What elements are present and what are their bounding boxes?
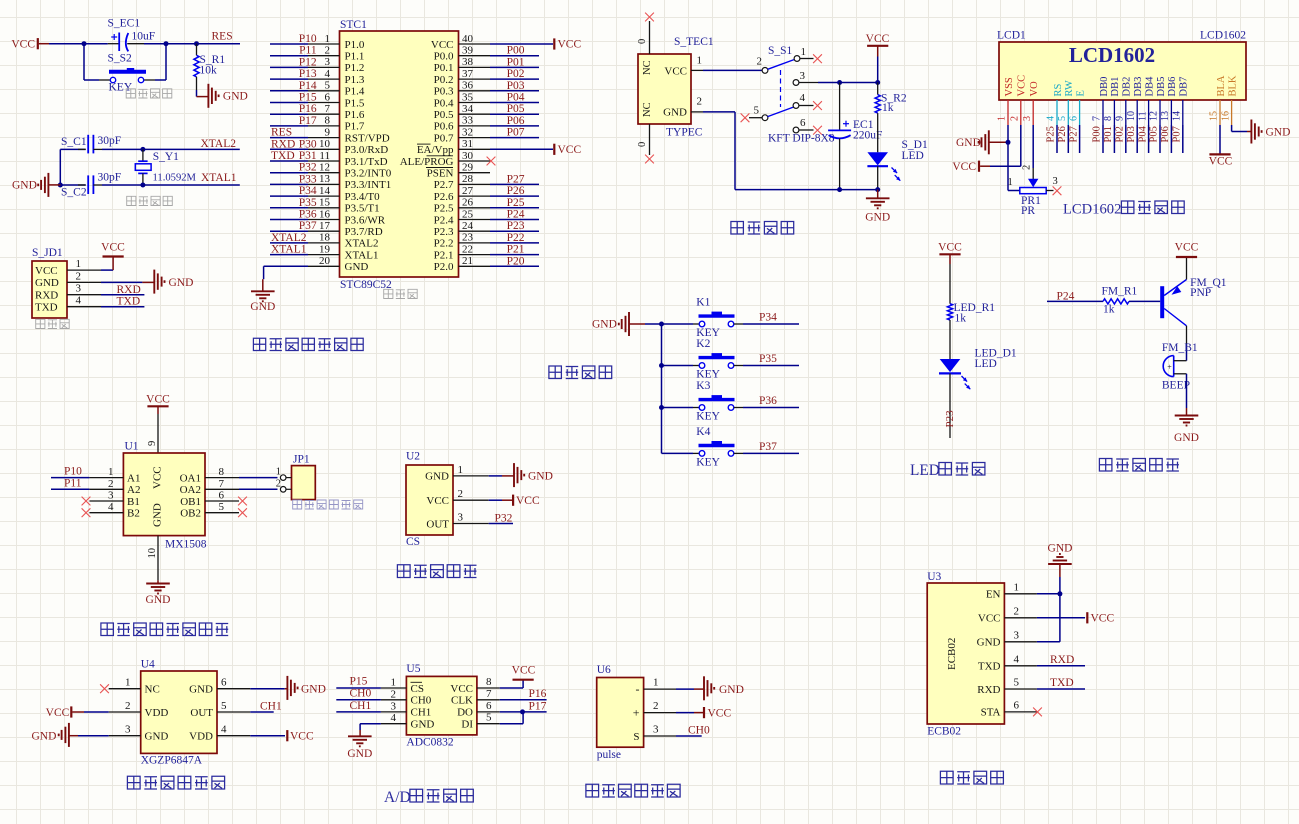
svg-text:DB7: DB7 xyxy=(1179,77,1190,97)
IC U4 XGZP6847A body xyxy=(141,659,217,767)
svg-text:VCC: VCC xyxy=(1091,613,1115,625)
svg-text:1: 1 xyxy=(697,55,703,67)
MCU pin 40 VCC xyxy=(431,33,490,51)
wire and net label P32 at U2 pin3 xyxy=(489,513,513,525)
svg-text:GND: GND xyxy=(145,731,169,743)
svg-text:XTAL1: XTAL1 xyxy=(201,172,237,184)
node junction crystal top xyxy=(140,147,145,152)
U1 pin 7 OA2 xyxy=(180,478,239,496)
title bluetooth module xyxy=(940,771,1003,784)
LCD pin 1 VSS xyxy=(997,77,1015,125)
svg-text:2: 2 xyxy=(1014,605,1020,617)
svg-text:-: - xyxy=(636,682,640,696)
no-connect X at U1 pin5 xyxy=(238,508,247,517)
wire key circuit trunk xyxy=(661,324,663,453)
svg-text:P10: P10 xyxy=(64,466,82,478)
svg-text:VCC: VCC xyxy=(558,144,582,156)
svg-text:ECB02: ECB02 xyxy=(946,638,958,670)
IC U3 ECB02 body xyxy=(927,571,1004,738)
svg-text:K3: K3 xyxy=(696,380,710,392)
LCD pin 7 DB0 xyxy=(1092,77,1110,125)
wire S_TEC1 pin2 to power rail bottom xyxy=(703,112,878,190)
wire P22 net at MCU xyxy=(490,232,539,244)
svg-text:PNP: PNP xyxy=(1190,287,1211,299)
svg-text:P05: P05 xyxy=(1149,126,1160,142)
svg-text:P3.6/WR: P3.6/WR xyxy=(345,214,386,226)
U3 pin 4 TXD xyxy=(1004,653,1037,666)
no-connect X at U1 pin3 xyxy=(82,497,91,506)
svg-text:S_C1: S_C1 xyxy=(61,136,87,148)
svg-text:VDD: VDD xyxy=(189,731,213,743)
svg-text:VDD: VDD xyxy=(145,707,169,719)
svg-text:2: 2 xyxy=(1022,165,1033,170)
MCU pin 20 GND xyxy=(308,255,368,273)
svg-text:P14: P14 xyxy=(299,80,317,92)
wire and net label P07 at LCD pin 14 xyxy=(1172,125,1183,153)
power ground GND (buzzer) xyxy=(1174,408,1199,444)
U6 pin 1 xyxy=(644,677,676,690)
svg-text:K1: K1 xyxy=(696,297,710,309)
svg-text:38: 38 xyxy=(462,56,474,68)
switch K4 KEY xyxy=(662,426,744,468)
svg-text:P36: P36 xyxy=(759,395,777,407)
svg-text:2: 2 xyxy=(325,45,331,57)
svg-text:24: 24 xyxy=(462,220,474,232)
svg-text:GND: GND xyxy=(1174,432,1199,444)
capacitor S_C2 30pF xyxy=(60,172,121,199)
svg-text:5: 5 xyxy=(1057,116,1068,121)
connector JP1 motor socket xyxy=(276,454,316,500)
svg-text:P1.2: P1.2 xyxy=(345,62,365,74)
node junction trunk at K1 xyxy=(659,322,664,327)
wire FM_Q1 collector to buzzer xyxy=(1186,326,1188,361)
svg-text:2: 2 xyxy=(458,488,464,500)
wire U3 EN to ground trunk xyxy=(1037,593,1060,595)
svg-text:PSEN: PSEN xyxy=(427,168,454,180)
power port VCC at S_JD1 pin1 xyxy=(101,242,125,271)
wire LCD VO to potentiometer wiper xyxy=(1022,125,1034,179)
svg-text:pulse: pulse xyxy=(597,749,621,761)
U5 pin 2 xyxy=(381,688,407,700)
wire P02 net at MCU xyxy=(490,68,539,80)
power port VCC (reset circuit) xyxy=(11,38,49,50)
svg-text:RES: RES xyxy=(212,31,233,43)
svg-text:15: 15 xyxy=(319,197,331,209)
svg-text:23: 23 xyxy=(462,232,474,244)
svg-text:2: 2 xyxy=(1010,116,1021,121)
svg-text:19: 19 xyxy=(319,243,331,255)
LCD pin 11 DB4 xyxy=(1137,76,1155,125)
svg-text:CS: CS xyxy=(406,536,420,548)
svg-text:P2.6: P2.6 xyxy=(434,191,454,203)
svg-text:1k: 1k xyxy=(955,313,967,325)
svg-text:28: 28 xyxy=(462,173,474,185)
title LCD1602 display circuit xyxy=(1063,201,1184,218)
svg-text:LCD1: LCD1 xyxy=(997,30,1026,42)
svg-text:DB1: DB1 xyxy=(1110,77,1121,97)
svg-text:3: 3 xyxy=(76,283,82,295)
svg-text:11: 11 xyxy=(1137,111,1148,121)
svg-text:P36: P36 xyxy=(299,209,317,221)
node junction bottom rail at LED xyxy=(875,187,880,192)
U3 pin 2 VCC xyxy=(1004,605,1037,618)
wire U5 pin5 DI up to DO xyxy=(500,712,523,724)
MCU pin 32 P0.7 xyxy=(434,126,490,144)
svg-text:U6: U6 xyxy=(597,664,611,676)
svg-text:P3.7/RD: P3.7/RD xyxy=(345,226,383,238)
svg-text:XTAL1: XTAL1 xyxy=(345,249,379,261)
svg-text:3: 3 xyxy=(108,490,114,502)
wire P04 net at MCU xyxy=(490,92,539,104)
svg-text:6: 6 xyxy=(486,700,492,712)
power ground GND at S_JD1 pin2 xyxy=(101,270,193,294)
svg-text:P22: P22 xyxy=(507,232,525,244)
svg-text:VCC: VCC xyxy=(431,39,454,51)
svg-text:5: 5 xyxy=(1014,677,1020,689)
wire and net label CH1 at U5 pin3 xyxy=(336,700,381,712)
svg-text:KEY: KEY xyxy=(696,456,720,468)
svg-text:P25: P25 xyxy=(507,197,525,209)
U4 pin 2 xyxy=(109,700,141,712)
svg-text:P3.2/INT0: P3.2/INT0 xyxy=(345,168,392,180)
svg-text:DO: DO xyxy=(457,707,473,719)
title speed sensor xyxy=(397,565,476,578)
svg-text:5: 5 xyxy=(219,501,225,513)
MCU pin 12 P3.2/INT0 xyxy=(270,162,392,180)
wire P06 net at MCU xyxy=(490,115,539,127)
LCD pin 9 DB2 xyxy=(1115,77,1133,125)
svg-text:P37: P37 xyxy=(299,220,317,232)
wire and net label P11 at U1 xyxy=(51,477,89,489)
U4 pin 4 xyxy=(217,724,250,736)
svg-text:27: 27 xyxy=(462,185,474,197)
svg-text:GND: GND xyxy=(663,107,687,119)
wire and net label P00 at LCD pin 7 xyxy=(1092,125,1103,153)
U1 pin 1 A1 xyxy=(89,466,140,484)
svg-text:3: 3 xyxy=(653,724,659,736)
svg-text:XTAL2: XTAL2 xyxy=(345,238,379,250)
U2 pin 3 xyxy=(453,512,489,524)
svg-text:GND: GND xyxy=(865,212,890,224)
svg-text:GND: GND xyxy=(152,503,164,527)
svg-text:A/D: A/D xyxy=(384,789,411,806)
wire and net label P26 at LCD pin 5 xyxy=(1057,125,1068,153)
MCU pin 10 P3.0/RxD xyxy=(270,138,388,156)
svg-text:6: 6 xyxy=(325,91,331,103)
wire and net label P35 xyxy=(743,353,799,366)
svg-text:VCC: VCC xyxy=(152,466,164,489)
svg-text:KEY: KEY xyxy=(109,82,133,94)
svg-text:P16: P16 xyxy=(529,688,547,700)
svg-text:P00: P00 xyxy=(507,45,525,57)
MCU pin 14 P3.4/T0 xyxy=(270,185,380,203)
svg-text:P37: P37 xyxy=(759,441,777,453)
svg-text:VCC: VCC xyxy=(426,495,449,507)
LED S_D1 xyxy=(867,139,928,190)
switch S_S1 KFT DIP-8X8 xyxy=(757,45,835,145)
svg-text:5: 5 xyxy=(221,700,227,712)
LCD pin 6 E xyxy=(1068,90,1086,125)
wire P00 net at MCU xyxy=(490,45,539,57)
svg-text:8: 8 xyxy=(1103,116,1114,121)
no-connect X at U3 STA xyxy=(1033,708,1042,717)
wire left branch to switch S_S2 xyxy=(84,44,110,80)
wire and net label P01 at LCD pin 8 xyxy=(1103,125,1114,153)
svg-text:GND: GND xyxy=(250,301,275,313)
svg-text:P3.5/T1: P3.5/T1 xyxy=(345,203,380,215)
MCU pin 30 ALE/PROG xyxy=(400,150,490,168)
svg-text:11: 11 xyxy=(319,150,330,162)
svg-text:GND: GND xyxy=(592,319,617,331)
wire crystal caps common leg xyxy=(59,149,61,185)
svg-text:7: 7 xyxy=(1092,116,1103,121)
capacitor EC1 220uF xyxy=(828,83,882,190)
U4 pin 1 xyxy=(109,677,141,689)
wire S_TEC1 pin1 to switch S_S1 xyxy=(703,69,762,71)
power port VCC at U4 pin4 xyxy=(250,730,314,742)
svg-text:ADC0832: ADC0832 xyxy=(406,737,454,749)
MCU pin 15 P3.5/T1 xyxy=(270,197,380,215)
svg-text:B1: B1 xyxy=(127,496,140,508)
svg-text:3: 3 xyxy=(800,70,806,82)
svg-text:P04: P04 xyxy=(1137,125,1148,142)
MCU pin 24 P2.3 xyxy=(434,220,490,238)
svg-text:RXD: RXD xyxy=(977,684,1000,696)
MCU pin 29 PSEN xyxy=(426,162,490,180)
MCU pin 27 P2.6 xyxy=(434,185,490,203)
wire P25 net at MCU xyxy=(490,197,539,209)
wire P24 net at MCU xyxy=(490,209,539,221)
no-connect X at S_S1 pin4 xyxy=(813,101,822,110)
svg-text:3: 3 xyxy=(125,724,131,736)
svg-text:10: 10 xyxy=(147,548,158,559)
no-connect X bottom pin S_TEC1 xyxy=(645,155,654,164)
power port VCC (buzzer) xyxy=(1175,242,1199,280)
svg-text:P3.1/TxD: P3.1/TxD xyxy=(345,156,388,168)
title LED lamp circuit xyxy=(910,462,985,479)
svg-text:1: 1 xyxy=(1008,177,1013,188)
svg-text:TYPEC: TYPEC xyxy=(666,127,703,139)
svg-text:VCC: VCC xyxy=(978,613,1001,625)
svg-text:P2.2: P2.2 xyxy=(434,238,454,250)
svg-text:VCC: VCC xyxy=(450,683,473,695)
wire P07 net at MCU xyxy=(490,127,539,139)
svg-text:XTAL1: XTAL1 xyxy=(271,244,307,256)
no-connect X at U4 pin1 xyxy=(100,684,109,693)
svg-text:GND: GND xyxy=(169,277,194,289)
svg-text:P17: P17 xyxy=(299,115,317,127)
svg-text:12: 12 xyxy=(319,162,330,174)
MCU pin 28 P2.7 xyxy=(434,173,490,191)
svg-text:10k: 10k xyxy=(200,65,218,77)
svg-text:P1.4: P1.4 xyxy=(345,86,365,98)
svg-text:P15: P15 xyxy=(299,92,317,104)
LCD pin 4 RS xyxy=(1046,83,1064,125)
svg-text:DB4: DB4 xyxy=(1144,76,1155,97)
node junction trunk at K3 xyxy=(659,405,664,410)
svg-text:P17: P17 xyxy=(529,701,547,713)
MCU pin 4 P1.3 xyxy=(270,68,365,86)
svg-text:P0.2: P0.2 xyxy=(434,74,454,86)
svg-text:P32: P32 xyxy=(299,162,317,174)
svg-text:P00: P00 xyxy=(1092,126,1103,142)
svg-text:4: 4 xyxy=(108,501,114,513)
MCU pin 22 P2.1 xyxy=(434,243,490,261)
power ground GND (LCD left) xyxy=(956,130,1008,154)
svg-text:2: 2 xyxy=(653,700,659,712)
svg-text:VCC: VCC xyxy=(952,161,976,173)
potentiometer PR1 PR xyxy=(1008,176,1058,217)
svg-text:35: 35 xyxy=(462,91,474,103)
svg-text:11.0592M: 11.0592M xyxy=(153,173,197,184)
MCU pin 38 P0.1 xyxy=(434,56,490,74)
svg-text:RW: RW xyxy=(1064,80,1075,96)
U3 pin 5 RXD xyxy=(1004,677,1037,690)
svg-text:P11: P11 xyxy=(299,45,317,57)
wire TXD at S_JD1 pin4 xyxy=(101,296,144,308)
U5 pin 5 xyxy=(477,712,500,724)
svg-text:CH0: CH0 xyxy=(688,725,710,737)
svg-text:8: 8 xyxy=(325,115,331,127)
svg-text:GND: GND xyxy=(528,471,553,483)
wire P23 net at MCU xyxy=(490,220,539,232)
svg-text:+: + xyxy=(1167,362,1172,371)
wire and net label CH0 at U5 pin2 xyxy=(336,688,381,700)
power port VCC (power circuit) xyxy=(866,33,890,83)
MCU pin 11 P3.1/TxD xyxy=(270,150,388,168)
svg-text:STA: STA xyxy=(981,707,1001,719)
resistor LED_R1 1k xyxy=(947,302,995,359)
U3 pin 3 GND xyxy=(1004,629,1037,642)
LCD pin 3 VO xyxy=(1022,81,1040,125)
wire P26 net at MCU xyxy=(490,185,539,197)
svg-text:14: 14 xyxy=(319,185,331,197)
no-connect X at PR1 pin3 xyxy=(1053,186,1062,195)
MCU pin 8 P1.7 xyxy=(270,115,365,133)
svg-text:2: 2 xyxy=(276,478,281,489)
power port VCC at U5 pin8 xyxy=(500,665,536,689)
LED LED_D1 xyxy=(939,348,1017,439)
svg-text:P25: P25 xyxy=(1046,126,1057,142)
svg-text:1: 1 xyxy=(458,464,464,476)
svg-text:P02: P02 xyxy=(1115,126,1126,142)
svg-text:10: 10 xyxy=(319,138,331,150)
MCU pin 37 P0.2 xyxy=(434,68,490,86)
svg-text:33: 33 xyxy=(462,115,474,127)
no-connect X top pin S_TEC1 xyxy=(645,13,654,22)
svg-text:E: E xyxy=(1075,90,1086,96)
pin 0 bottom of S_TEC1 xyxy=(637,124,650,155)
MCU pin 31 EA/Vpp xyxy=(417,138,490,156)
wire U5 pin4 to ground xyxy=(360,724,381,730)
MCU pin 18 XTAL2 xyxy=(270,232,378,250)
svg-text:LCD1602: LCD1602 xyxy=(1069,43,1155,67)
svg-text:P2.5: P2.5 xyxy=(434,203,454,215)
power ground GND at U2 pin1 xyxy=(489,463,553,487)
LCD pin 13 DB6 xyxy=(1160,77,1178,125)
power port VCC (LED circuit) xyxy=(938,242,962,304)
MCU pin 35 P0.4 xyxy=(434,91,490,109)
svg-text:FM_B1: FM_B1 xyxy=(1162,342,1198,354)
svg-text:VCC: VCC xyxy=(866,33,890,45)
svg-text:P05: P05 xyxy=(507,103,525,115)
MCU pin 16 P3.6/WR xyxy=(270,208,386,226)
svg-text:30pF: 30pF xyxy=(98,135,122,147)
svg-text:14: 14 xyxy=(1172,111,1183,121)
svg-text:9: 9 xyxy=(325,126,331,138)
svg-text:P27: P27 xyxy=(507,173,525,185)
svg-text:1: 1 xyxy=(125,677,131,689)
wire U3 GND to trunk xyxy=(1037,641,1060,643)
wire FM_R1 to FM_Q1 base xyxy=(1129,300,1160,302)
svg-text:K2: K2 xyxy=(696,338,710,350)
svg-text:B2: B2 xyxy=(127,508,140,520)
MCU pin 36 P0.3 xyxy=(434,80,490,98)
svg-text:16: 16 xyxy=(319,208,331,220)
svg-text:P35: P35 xyxy=(759,353,777,365)
LCD pin 10 DB3 xyxy=(1126,77,1144,125)
U4 pin 3 xyxy=(109,724,141,736)
resistor FM_R1 1k xyxy=(1102,286,1138,316)
svg-text:XTAL2: XTAL2 xyxy=(201,138,237,150)
svg-text:S_EC1: S_EC1 xyxy=(108,18,141,30)
power ground GND (bluetooth top) xyxy=(1048,543,1073,642)
U6 pin 3 xyxy=(644,724,676,737)
svg-text:P1.1: P1.1 xyxy=(345,51,365,63)
MCU pin 17 P3.7/RD xyxy=(270,220,383,238)
svg-text:U4: U4 xyxy=(141,659,155,671)
svg-text:1k: 1k xyxy=(882,102,894,114)
svg-text:DI: DI xyxy=(461,719,473,731)
svg-text:CS: CS xyxy=(411,683,424,695)
svg-text:GND: GND xyxy=(411,719,435,731)
svg-text:2: 2 xyxy=(125,700,131,712)
U5 pin 3 xyxy=(381,700,407,712)
node junction right of S_EC1 xyxy=(164,41,169,46)
power port VCC at U4 pin2 xyxy=(46,706,109,718)
IC U1 MX1508 body xyxy=(123,441,206,551)
wire P01 net at MCU xyxy=(490,56,539,68)
svg-text:CH0: CH0 xyxy=(411,695,432,707)
svg-text:P1.5: P1.5 xyxy=(345,97,365,109)
svg-text:RXD: RXD xyxy=(271,138,295,150)
svg-text:1: 1 xyxy=(391,677,397,689)
wire P20 net at MCU xyxy=(490,255,539,267)
svg-text:P0.4: P0.4 xyxy=(434,97,454,109)
svg-text:RXD: RXD xyxy=(1050,654,1074,666)
svg-text:LED: LED xyxy=(910,462,940,479)
svg-text:GND: GND xyxy=(146,594,171,606)
node junction at U3 EN xyxy=(1057,591,1062,596)
svg-text:P34: P34 xyxy=(299,185,317,197)
comment text MCU xyxy=(384,289,418,299)
svg-text:VCC: VCC xyxy=(11,39,35,51)
svg-text:EA/Vpp: EA/Vpp xyxy=(417,144,454,156)
connector S_TEC1 TYPEC body xyxy=(638,36,714,139)
svg-text:VCC: VCC xyxy=(664,65,687,77)
svg-text:DB2: DB2 xyxy=(1122,77,1133,97)
svg-text:OA2: OA2 xyxy=(180,484,201,496)
LCD pin 12 DB5 xyxy=(1149,77,1167,125)
svg-text:2: 2 xyxy=(76,270,82,282)
wire and net label P36 xyxy=(743,395,799,408)
svg-text:26: 26 xyxy=(462,197,474,209)
svg-text:EN: EN xyxy=(986,589,1001,601)
svg-text:P21: P21 xyxy=(507,244,525,256)
svg-text:RXD: RXD xyxy=(35,289,58,301)
svg-text:S_JD1: S_JD1 xyxy=(32,247,63,259)
svg-text:JP1: JP1 xyxy=(293,454,310,466)
